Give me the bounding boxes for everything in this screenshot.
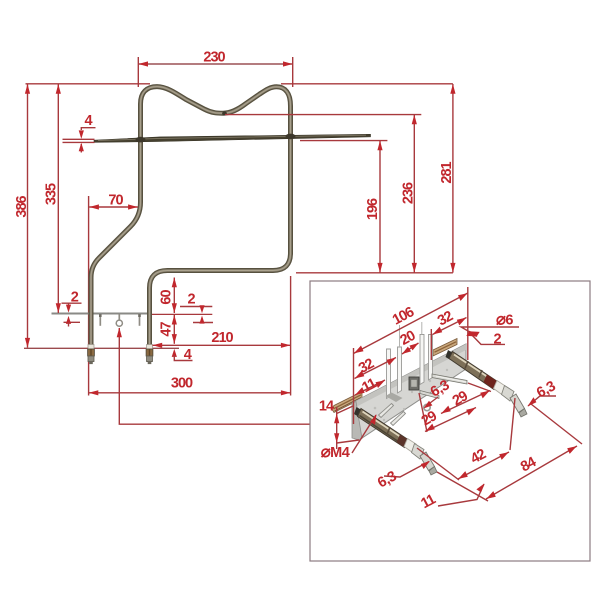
dim 84 line xyxy=(486,446,577,499)
bracket screw with loop (middle pin) xyxy=(118,314,120,320)
6,3b arrow xyxy=(528,397,537,406)
svg-text:14: 14 xyxy=(319,399,334,415)
dimension 47 line xyxy=(173,315,175,344)
bracket tab pair 1 right prong xyxy=(398,347,402,393)
tube B shaft band 1 xyxy=(465,361,468,369)
14 arrows xyxy=(334,414,339,424)
20 arrows xyxy=(402,347,411,354)
plate face shading xyxy=(352,344,466,409)
dim 20 line xyxy=(402,343,419,354)
lower screw rod xyxy=(420,391,439,399)
dimension 230 line xyxy=(138,63,292,65)
bottom tube tangent line xyxy=(296,272,453,274)
red bracket extension line xyxy=(152,313,212,315)
crossbar lower tangent line xyxy=(300,140,387,142)
tube A spade blade xyxy=(420,452,435,471)
dimension 300 line xyxy=(89,392,291,394)
loop of middle screw xyxy=(116,320,122,326)
dimension 4 top arrows xyxy=(79,130,84,139)
svg-text:2: 2 xyxy=(187,292,195,308)
mounting bracket strip (edge view) xyxy=(52,313,153,315)
dia6 arrow xyxy=(466,331,477,337)
29b arrows xyxy=(425,424,435,432)
dimension 230 arrows xyxy=(138,61,148,66)
svg-text:70: 70 xyxy=(108,192,123,208)
rail strip left piece (striped) xyxy=(332,392,363,413)
pair 2 prong extension line xyxy=(421,322,423,335)
tube A spade tip xyxy=(429,467,437,476)
left terminal ceramic band xyxy=(88,345,94,350)
tube B shaft band 2 xyxy=(479,370,482,378)
stud 1 (M4) xyxy=(379,404,394,418)
tube A dark band before ceramic xyxy=(397,435,409,448)
tube A ceramic xyxy=(404,439,416,453)
svg-text:⌀M4: ⌀M4 xyxy=(321,443,350,461)
top tangent line right segment xyxy=(281,83,453,85)
dimension 2 mid arrows xyxy=(201,307,203,309)
dimension 230 extension left xyxy=(137,57,139,87)
svg-text:236: 236 xyxy=(401,182,417,204)
32a arrows xyxy=(355,371,365,379)
dimension 4 top: leader xyxy=(81,128,95,130)
inset arrowheads xyxy=(334,293,577,499)
svg-text:230: 230 xyxy=(203,50,225,66)
tube B spade tip xyxy=(519,409,527,418)
dimension 210 line xyxy=(153,344,291,346)
106 arrows xyxy=(354,346,364,354)
inner terminal body xyxy=(146,349,153,356)
rail strip right piece (striped) xyxy=(433,339,457,357)
29 ext b xyxy=(468,383,491,392)
svg-text:281: 281 xyxy=(439,161,455,183)
svg-text:300: 300 xyxy=(171,375,193,391)
svg-text:2: 2 xyxy=(71,290,79,306)
dimension 4 top: tangent ticks xyxy=(63,138,95,140)
weld mark at dip xyxy=(222,111,227,115)
diaM4 leader xyxy=(352,415,376,453)
84 ext left xyxy=(437,472,488,501)
svg-text:⌀6: ⌀6 xyxy=(496,311,513,329)
dim 29b line xyxy=(425,408,476,432)
left terminal tip end xyxy=(89,362,93,365)
6,3c leader xyxy=(384,462,429,478)
crossbar highlight xyxy=(98,135,366,140)
dimension 386 line xyxy=(27,84,29,348)
stud 2 (M4) xyxy=(391,412,406,426)
svg-text:2: 2 xyxy=(493,332,501,348)
inner terminal tip xyxy=(147,356,153,362)
bracket pin 1 xyxy=(99,314,101,326)
tube B ceramic xyxy=(494,381,507,396)
bracket tab pair 2 right prong xyxy=(429,335,433,381)
plate left end face xyxy=(352,402,362,441)
tube A dark collar xyxy=(354,407,369,422)
dim 14 tick bottom xyxy=(337,440,359,443)
pair 1 base shadow xyxy=(386,393,403,403)
11b leader xyxy=(438,484,484,506)
dimension 335 line xyxy=(57,84,59,313)
dimension 281 line xyxy=(452,84,454,273)
29 ext a xyxy=(419,393,427,432)
left terminal tip xyxy=(88,356,94,362)
dimension 2 mid: leader ticks xyxy=(180,306,212,308)
dim 32b line xyxy=(433,318,467,335)
dim 32a line xyxy=(355,358,397,379)
tube A shaft band 1 xyxy=(372,417,375,425)
heating element tube core xyxy=(91,87,291,362)
dim 42 line xyxy=(458,452,509,479)
screw through nut xyxy=(432,374,467,384)
dip tangent line xyxy=(225,114,421,116)
ext line 106 left xyxy=(353,348,355,424)
42 ext right xyxy=(510,398,515,450)
left terminal body stripe xyxy=(90,349,92,356)
MAIN DRAWING xyxy=(14,50,456,425)
inset dimension graphics xyxy=(337,287,582,506)
extension line left of element (70/300 dims) xyxy=(88,196,90,396)
bracket pin 3 xyxy=(139,314,141,326)
42 arrows xyxy=(458,471,468,479)
dim 11a line xyxy=(355,380,385,395)
inner terminal body stripe xyxy=(149,349,151,356)
ext line 32b left xyxy=(430,329,432,360)
dia6 leader xyxy=(461,327,519,336)
leader line to inset xyxy=(119,328,310,424)
loop end of screw xyxy=(424,404,430,410)
plate speckles xyxy=(374,369,448,421)
dim 14 vertical xyxy=(336,407,338,449)
diaM4 arrow xyxy=(370,414,376,425)
29a arrows xyxy=(441,406,451,414)
nut block at pair 2 xyxy=(409,377,419,390)
tube B spade terminal xyxy=(502,386,515,402)
tube A shaft xyxy=(358,409,409,448)
weld mark left column xyxy=(136,137,146,143)
tube A spade terminal xyxy=(412,444,425,460)
svg-text:335: 335 xyxy=(44,183,60,205)
ext line 106 right xyxy=(467,287,469,360)
top tangent line left segment xyxy=(26,83,151,85)
inner terminal tip end xyxy=(148,362,152,365)
84 ext right xyxy=(531,404,582,444)
svg-text:196: 196 xyxy=(365,198,381,220)
tube A shaft dark side xyxy=(360,416,404,446)
dimension 2 left arrows xyxy=(68,303,70,306)
dimension 236 line xyxy=(413,115,415,273)
INSET DETAIL BOX xyxy=(310,281,590,561)
bracket pin 1 cap xyxy=(99,314,102,317)
dimension 196 line xyxy=(379,141,381,273)
bracket tab pair 1 left prong xyxy=(387,349,391,399)
inset labels xyxy=(319,304,559,512)
extension line right (210/300) xyxy=(290,276,292,396)
42 ext left xyxy=(417,448,459,480)
2 inset arrow xyxy=(469,331,480,337)
bracket tab pair 2 left prong xyxy=(420,335,424,385)
dimension 230 extension right xyxy=(292,57,294,87)
dimension 70 line xyxy=(89,206,138,208)
dimension 2 left: leader ticks xyxy=(62,302,82,304)
dimension 60 line xyxy=(173,278,175,314)
dimension 4 bottom arrow and leader xyxy=(172,349,177,357)
svg-text:4: 4 xyxy=(84,113,92,129)
svg-text:4: 4 xyxy=(184,347,192,363)
tube B spade blade xyxy=(510,394,525,413)
terminal top line xyxy=(24,347,179,349)
bracket pin 3 cap xyxy=(138,314,141,317)
dim 106 line xyxy=(354,293,468,354)
crossbar tube (middle section seen edge-on) xyxy=(94,134,371,142)
tube A shaft band 2 xyxy=(387,427,390,435)
svg-text:386: 386 xyxy=(14,195,30,217)
tube B shaft xyxy=(449,352,498,390)
tube B maroon patch xyxy=(484,375,498,390)
32b arrows xyxy=(433,327,443,335)
tube B dark collar xyxy=(446,350,461,365)
heating element tube highlight xyxy=(91,87,291,362)
11a arrows xyxy=(355,387,365,395)
6,3a leader line xyxy=(426,397,438,406)
6,3c arrow xyxy=(421,461,430,469)
dim 29a line xyxy=(441,391,490,414)
84 arrows xyxy=(486,491,496,499)
pair 1 prong extension line xyxy=(399,325,401,347)
inner terminal ceramic band xyxy=(147,345,153,350)
leader arrow xyxy=(117,328,122,338)
svg-text:60: 60 xyxy=(159,290,175,305)
11b arrow xyxy=(476,484,484,493)
dim 2 inset leader xyxy=(470,333,506,345)
tube B shaft highlight xyxy=(454,355,496,383)
left terminal body xyxy=(88,349,95,356)
svg-text:210: 210 xyxy=(211,330,233,346)
mounting plate (isometric) xyxy=(352,344,466,440)
6,3a arrow xyxy=(424,401,433,409)
dim 14 tick top xyxy=(337,406,353,414)
6,3b leader xyxy=(528,396,556,406)
inset box frame xyxy=(310,281,590,561)
tube A shaft highlight xyxy=(363,412,407,441)
heating element tube outline xyxy=(91,87,291,362)
svg-text:47: 47 xyxy=(159,322,175,337)
weld mark right column xyxy=(286,134,296,140)
